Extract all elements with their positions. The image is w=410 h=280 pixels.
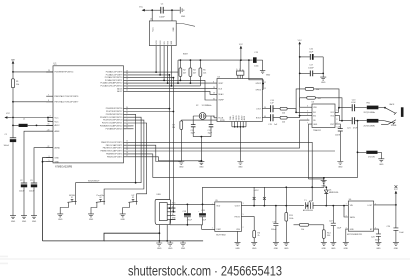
svg-text:PC5/ADC5/SCL/PCINT13: PC5/ADC5/SCL/PCINT13 [101,85,123,88]
svg-text:C24: C24 [386,226,390,228]
svg-text:GND: GND [55,157,60,159]
resistor R13 100k [285,187,293,243]
wire C5 to ground [164,9,180,11]
svg-text:30: 30 [126,107,128,109]
svg-text:3500B: 3500B [391,125,397,127]
svg-text:20k: 20k [282,121,285,123]
svg-text:16: 16 [126,152,128,154]
wire C1 to ground [12,142,14,216]
ground (C23) [375,242,381,250]
svg-text:GND: GND [321,82,326,84]
svg-text:R4: R4 [193,70,196,72]
resistor R14 560 [322,225,331,243]
ground (sleeve) [378,159,384,166]
ground (top right of U2) [180,7,186,18]
wire U2 pin3 down [163,46,165,81]
IC U5 charger MCP73832 [212,200,244,237]
svg-text:C17: C17 [309,65,313,67]
wire caps common rail [170,219,203,224]
svg-text:GND: GND [55,162,60,164]
wire amp gnd down [309,124,324,180]
resistor R11 20k (feedback 2) [300,96,342,120]
svg-text:PC3/ADC3/PCINT11: PC3/ADC3/PCINT11 [105,79,122,82]
svg-text:VCC: VCC [55,117,60,119]
resistor sleeve 270 [357,151,382,159]
wire GPIO pull-up tie [249,60,263,89]
svg-text:13: 13 [264,88,266,90]
svg-text:10k: 10k [16,84,19,86]
svg-text:GND: GND [11,221,16,223]
pushbutton S1 MODE [60,195,76,214]
wire +4.2V rail [203,178,324,204]
svg-text:2k: 2k [258,235,260,237]
wire PC1 row [131,74,169,76]
svg-text:560: 560 [327,235,330,237]
svg-text:XWRP: XWRP [218,100,224,102]
svg-text:BAT: BAT [11,59,15,62]
resistor R1 10k [12,79,20,88]
svg-text:PD4/ADC5/PCINT8: PD4/ADC5/PCINT8 [106,71,123,74]
wire PROG to R6 [241,217,254,231]
ground (R6) [251,242,257,250]
transistor T1 AP4435GM p-mosfet [303,187,313,212]
ground (under C3) [31,216,37,223]
power flag VCC (output) [394,185,399,205]
ground (charger) [235,242,241,250]
wire PD4 to button S2 [104,120,144,203]
svg-text:10uF: 10uF [337,228,342,230]
svg-text:11: 11 [126,127,128,129]
svg-text:1uF: 1uF [270,103,274,105]
svg-text:C21: C21 [347,127,351,129]
wire VCC drops to U2 [152,10,172,21]
wire VO2 out [335,116,352,121]
resistor R12 10k [294,223,324,230]
diode D1 MBR0520L [324,186,339,206]
svg-text:R14: R14 [327,232,331,234]
svg-text:S2: S2 [100,197,102,199]
svg-text:GND: GND [157,248,162,250]
ground (R7) [178,162,184,169]
svg-text:32: 32 [126,113,128,115]
svg-text:7: 7 [48,94,49,96]
svg-text:5: 5 [49,160,50,162]
svg-text:270mW: 270mW [368,156,375,158]
MCU left pin numbers [48,70,51,162]
IC U3 TPA6112 headphone amp [307,102,338,132]
svg-text:GND: GND [235,248,240,250]
svg-text:MCP5205BM5TR5: MCP5205BM5TR5 [347,234,362,236]
wire PB2 to amp shutdown [131,120,309,148]
capacitor C23 100nF (BP) [371,229,381,242]
wire AGND rail down [34,148,53,183]
svg-text:S1: S1 [71,197,73,199]
svg-text:PD4/T0/XCK/PCINT20: PD4/T0/XCK/PCINT20 [103,120,122,122]
svg-text:8: 8 [337,119,338,121]
ground (after C13) [260,60,271,77]
svg-text:GND: GND [284,248,289,250]
svg-text:XRTD: XRTD [220,120,226,122]
svg-text:VCC: VCC [153,27,155,32]
svg-text:GND: GND [252,248,257,250]
svg-text:1: 1 [212,228,213,230]
svg-text:100n: 100n [254,65,258,67]
svg-text:10: 10 [126,124,128,126]
svg-text:GPIO3: GPIO3 [256,89,262,91]
svg-text:4k7: 4k7 [183,72,186,74]
svg-text:R5: R5 [203,70,205,72]
power flag VCC (left) [4,113,11,119]
svg-text:MBR0520L: MBR0520L [329,192,340,194]
wire rail to STAT [202,225,215,230]
wire rail left drop [177,60,179,83]
wire U2 pin1 down [155,46,157,73]
ground (C25) [273,242,279,250]
capacitor C14 1uF [270,100,279,112]
svg-text:GND: GND [168,248,173,250]
svg-text:PD5/T1/OC0B/PCINT21: PD5/T1/OC0B/PCINT21 [102,123,122,125]
wire PD6 stub [131,125,134,127]
wire PD1 to USB D+ [131,78,175,212]
svg-text:100nF: 100nF [271,229,277,231]
wire VO1 out [335,108,352,113]
svg-text:C20: C20 [352,99,356,101]
wire cap gnd drop [322,57,324,77]
svg-text:C1: C1 [5,134,7,136]
wire U2 pin2 down [159,46,161,75]
svg-text:19: 19 [126,87,128,89]
svg-text:VCC: VCC [139,6,144,8]
wire crystal caps to ground [193,137,211,162]
svg-text:+: + [198,211,200,213]
wire U2 pin4 down [167,46,169,84]
power flag VCC (amp) [298,40,303,107]
inductor L1 [13,119,53,127]
svg-text:PB0/ICP1/CLKO/PCINT0: PB0/ICP1/CLKO/PCINT0 [101,142,122,144]
wire PC5 SCL row (to R5) [131,85,200,87]
svg-text:PB3/MOSI/OC2A/PCINT3: PB3/MOSI/OC2A/PCINT3 [100,150,122,153]
svg-text:24: 24 [126,73,128,75]
svg-text:GND: GND [181,248,186,250]
wire VDD [300,106,312,108]
svg-text:47uF: 47uF [351,102,356,104]
wire charger VSS to ground [237,231,239,242]
wire VCC rail (audio) [178,59,253,61]
svg-text:AP4435GM: AP4435GM [303,209,313,212]
svg-text:E4B7: E4B7 [183,53,188,55]
svg-text:1: 1 [346,203,347,205]
svg-text:MISO: MISO [160,40,162,45]
wire PD3 to button S1 [76,117,142,202]
ground (R13) [283,242,289,250]
svg-text:31: 31 [126,110,128,112]
svg-text:2: 2 [127,118,128,120]
node: junction dots on VCC wire [151,9,153,11]
MCU right pin numbers [126,70,128,157]
svg-text:ATMEGA328PB: ATMEGA328PB [55,165,72,168]
capacitor C15 1uF [268,114,279,126]
svg-text:R1: R1 [16,81,18,83]
svg-text:29: 29 [48,70,50,72]
svg-text:10uF: 10uF [399,232,404,234]
svg-text:SDAO: SDAO [218,93,224,96]
svg-text:ADC7: ADC7 [117,90,122,93]
svg-text:D1: D1 [329,189,331,191]
svg-text:13: 13 [126,143,128,145]
svg-text:4k7: 4k7 [193,72,196,74]
svg-text:GND: GND [338,167,343,169]
wire PC6 row [131,71,178,73]
svg-text:C11: C11 [191,130,194,132]
svg-text:267@100MHz: 267@100MHz [364,112,376,114]
svg-text:GND: GND [58,219,63,221]
capacitor C13 100n (on rail) [253,52,263,67]
headphone jack [381,103,403,127]
svg-text:SHDN: SHDN [350,217,356,219]
U4 bottom ground pins [232,122,246,127]
power flag BAT [11,59,15,67]
svg-text:VCC: VCC [6,113,11,115]
svg-text:GND: GND [179,167,184,169]
wire U2 right stub [176,24,195,27]
svg-text:PD6/AIN0/OC0A/PCINT22: PD6/AIN0/OC0A/PCINT22 [100,125,122,128]
capacitor C25 100nF (battery) [271,205,278,243]
svg-text:GND: GND [266,75,271,77]
svg-text:20: 20 [48,129,50,131]
wire PD2 down [131,114,136,182]
svg-text:S4S2S3S5UP: S4S2S3S5UP [88,181,100,183]
svg-text:GND: GND [173,27,175,32]
svg-text:6: 6 [50,120,51,122]
capacitor C26 10uF [198,204,207,224]
svg-text:5: 5 [337,110,338,112]
svg-text:27: 27 [126,81,128,83]
svg-text:23: 23 [126,70,128,72]
wire PB0 to power rail [131,142,312,187]
svg-text:IN1: IN1 [313,112,316,114]
ground (C22) [330,242,336,250]
svg-text:S3: S3 [132,197,134,199]
svg-text:100uF: 100uF [19,191,25,193]
ground (bus 2) [167,241,173,250]
svg-text:IN2: IN2 [313,115,316,117]
svg-text:PROG: PROG [235,216,241,218]
capacitor C24 10uF [386,205,404,243]
MCU left pin labels [55,72,79,164]
svg-text:C3: C3 [30,180,32,182]
svg-text:VCC: VCC [394,189,399,191]
wire charger OUT line [241,205,304,207]
wire LOUT output [374,204,396,206]
MCU left pin stubs [46,72,53,162]
ground (S1) [57,214,63,221]
svg-text:PC2/ADC2/PCINT10: PC2/ADC2/PCINT10 [105,76,123,79]
svg-text:GND: GND [181,16,186,18]
svg-text:TPA6112: TPA6112 [313,129,321,132]
svg-text:VCC: VCC [239,44,244,46]
svg-text:U1: U1 [54,63,58,66]
wire PB5 to crystal ground run [131,157,201,161]
ground (crystal) [198,161,204,169]
resistor R5 10k [199,60,206,86]
wire PB3 long run under amp [131,150,335,152]
svg-text:20k: 20k [282,112,285,114]
svg-text:MODE: MODE [69,195,76,197]
pushbutton S3 UP [123,195,138,214]
USB connector J1 [155,194,176,241]
wire PB1 to ground via R7 area [131,145,181,161]
ground (C24) [393,242,399,250]
capacitor C16 10uF [299,49,323,60]
capacitor C12 15pF [208,125,214,137]
ground (U4) [237,162,243,169]
pushbutton S2 PLAY [91,195,105,214]
ground (bus 1) [156,241,162,250]
svg-text:C22: C22 [329,221,333,223]
ground (bus 3) [180,241,186,250]
wire PC3 row (to U4 XWRP) [131,80,214,100]
svg-text:PB5/SCK/PCINT5: PB5/SCK/PCINT5 [107,156,122,158]
capacitor C19 470uF [183,204,193,224]
svg-text:AV: AV [242,68,245,71]
svg-text:C15: C15 [268,124,272,126]
wire PD0 to USB D- [131,75,175,208]
svg-text:22: 22 [48,146,50,148]
wire LOUT to C14 [262,108,270,110]
svg-text:3: 3 [49,156,50,158]
wire PC4 SDA row (to U4) [131,82,214,84]
resistor R2 4k7 [179,60,186,81]
svg-text:GND: GND [274,248,279,250]
svg-text:VO1: VO1 [330,112,334,114]
power flag VCC (top) [139,6,149,11]
svg-text:1uF: 1uF [274,124,278,126]
svg-text:U3: U3 [312,102,314,104]
wire VCC to C5 [149,9,160,11]
ground (amp supply caps) [320,77,326,84]
svg-text:Push/Sel: Push/Sel [97,195,105,197]
resistor R8 20k (input L) [280,107,312,114]
svg-text:10uF: 10uF [309,51,314,53]
wire PC2 row [131,77,173,79]
svg-text:100nF: 100nF [159,17,165,19]
node dots on audio VCC rail [180,59,182,61]
svg-text:14: 14 [126,146,128,148]
svg-text:PB2/SS/OC1B/PCINT2: PB2/SS/OC1B/PCINT2 [103,148,123,150]
svg-text:C16: C16 [309,49,313,51]
resistor R7 1M [172,120,217,161]
wire PB4 long bottom run to jack sleeve [131,152,358,177]
svg-text:GND: GND [121,219,126,221]
svg-text:GND: GND [22,221,27,223]
svg-text:USB: USB [157,194,162,196]
wire PD7 stub [131,128,134,130]
svg-text:PB4/MISO/PCINT4: PB4/MISO/PCINT4 [106,154,122,156]
svg-text:GND: GND [379,164,384,166]
MCU right pin stubs [124,72,132,157]
svg-text:26: 26 [126,79,128,81]
svg-text:10k: 10k [301,229,304,231]
svg-text:R2: R2 [183,70,185,72]
IC U4 audio decoder [213,68,266,122]
svg-text:RST: RST [167,41,169,44]
wire MCU GND2 stub [43,161,54,163]
wire ADC6 row (to U4 SCK) [131,88,214,90]
svg-text:100nF: 100nF [308,67,314,69]
svg-text:R6: R6 [258,232,260,234]
svg-text:AREF: AREF [55,130,61,133]
wire ADC7 row (to U4 SDAO) [131,91,214,94]
node dots programming bus [155,71,157,73]
wire VCC to MCU VCC pins [11,118,53,122]
capacitor C18 100nF (bypass) [335,124,343,162]
svg-text:AGND: AGND [55,147,61,150]
svg-text:12.288MHz: 12.288MHz [202,105,212,107]
wire regulator GND [346,229,349,242]
wire BAT rail [12,67,14,138]
svg-text:C2: C2 [20,180,22,182]
node dots on BAT rail [12,71,14,73]
wire C3 to ground [33,187,35,215]
svg-text:100uF: 100uF [29,191,35,193]
svg-text:UP: UP [132,195,135,197]
svg-text:1M: 1M [172,127,175,129]
wire MCU GND to bottom bus [43,158,160,241]
svg-text:GND: GND [32,221,37,223]
test point cross 2 [263,187,266,205]
svg-text:C14: C14 [270,100,274,102]
svg-text:9: 9 [127,121,128,123]
svg-text:GND: GND [350,229,355,231]
crystal X2 12MHz [193,105,214,125]
svg-text:C13: C13 [254,52,258,54]
svg-text:C26: C26 [201,210,205,212]
svg-text:R7: R7 [173,124,175,126]
svg-text:15pF: 15pF [208,133,213,135]
svg-text:PB7/XTAL2/TOSC2/PCINT7: PB7/XTAL2/TOSC2/PCINT7 [55,101,79,104]
test point cross 1 [253,187,256,205]
capacitor C21 471uF [347,117,367,152]
svg-text:C12: C12 [208,130,212,132]
wire to MCU reset pin [13,71,53,73]
svg-text:C5: C5 [161,4,163,6]
svg-text:C23: C23 [371,236,375,238]
svg-text:18: 18 [48,124,50,126]
svg-text:15: 15 [126,149,128,151]
svg-text:GND: GND [313,124,318,126]
capacitor C22 10uF [329,206,342,243]
svg-text:GPIO2: GPIO2 [256,83,262,85]
svg-text:GND: GND [199,167,204,169]
svg-text:PB6/XTAL1/TOSC1/PCINT6: PB6/XTAL1/TOSC1/PCINT6 [55,95,79,98]
svg-text:AVCC: AVCC [55,124,61,127]
ground (R14) [321,242,327,250]
svg-text:PD7/AIN1/PCINT23: PD7/AIN1/PCINT23 [106,127,123,130]
svg-text:1: 1 [127,115,128,117]
watermark band [0,256,8,265]
svg-text:100nF: 100nF [335,134,341,136]
power flag VCC (audio rail) [239,44,244,60]
svg-text:PD0/RXD/PCINT16: PD0/RXD/PCINT16 [106,108,123,110]
capacitor C3 100uF [29,180,37,192]
svg-text:PD3/RESET/PCINT14: PD3/RESET/PCINT14 [55,72,74,74]
svg-text:22: 22 [126,90,128,92]
ground (under C2) [21,216,27,223]
svg-text:4: 4 [212,204,213,206]
svg-text:VD: VD [237,68,239,71]
svg-text:U2: U2 [150,19,152,21]
svg-text:FB1: FB1 [367,102,371,104]
